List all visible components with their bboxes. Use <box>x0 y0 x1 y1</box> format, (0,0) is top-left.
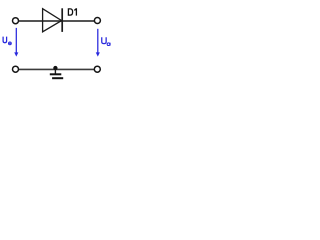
wire top rail right segment (diode cathode to output terminal) <box>62 20 94 22</box>
wire top rail left segment (input terminal to diode) <box>19 20 62 22</box>
diode D1 cathode bar <box>61 8 63 32</box>
label Ue subscript <box>9 42 12 45</box>
diode D1 triangle (anode) <box>43 9 62 32</box>
wire bottom rail <box>19 68 95 70</box>
terminal top-left (input) <box>13 18 19 24</box>
label Ua subscript <box>107 43 110 46</box>
terminal bottom-left <box>13 66 19 72</box>
junction dot on bottom rail <box>53 66 57 70</box>
terminal bottom-right <box>94 66 100 72</box>
ground stub wire <box>54 69 56 73</box>
label Ue <box>3 37 7 43</box>
label D1 digit <box>74 8 76 15</box>
label Ua <box>102 37 106 43</box>
ground bar 2 <box>52 77 63 79</box>
voltage arrow Ue head <box>14 52 18 56</box>
voltage arrow Ua head <box>96 52 100 56</box>
terminal top-right (output) <box>94 18 100 24</box>
label D1 <box>68 9 72 15</box>
voltage arrow Ue shaft <box>15 28 17 53</box>
ground bar 1 <box>50 73 62 75</box>
voltage arrow Ua shaft <box>97 29 99 53</box>
